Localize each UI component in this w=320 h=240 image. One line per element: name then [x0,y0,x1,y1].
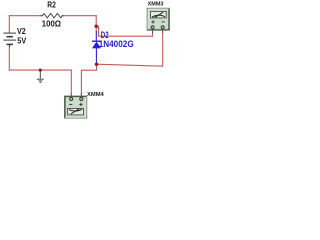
svg-text:V2: V2 [17,27,26,36]
svg-text:XMM3: XMM3 [148,2,165,8]
svg-text:R2: R2 [47,0,56,9]
svg-text:100Ω: 100Ω [42,20,62,29]
svg-text:XMM4: XMM4 [87,92,105,98]
svg-text:1N4002G: 1N4002G [99,39,134,49]
svg-text:5V: 5V [17,37,26,46]
